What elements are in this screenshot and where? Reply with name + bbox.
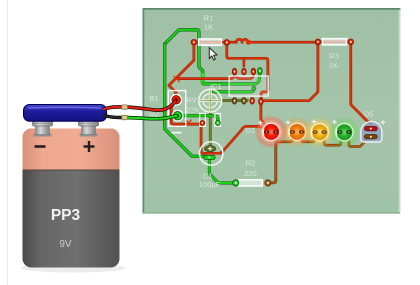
LED D2 body bbox=[288, 123, 305, 140]
wire red battery to board bbox=[103, 107, 123, 110]
trimmer RV1 legs bbox=[200, 113, 206, 126]
LED D3 body bbox=[311, 124, 328, 141]
svg-text:PP3: PP3 bbox=[51, 207, 81, 224]
node X junction marker upper bbox=[174, 76, 180, 82]
PCB board bbox=[143, 8, 401, 214]
wire red R1 left pad down to B1 plus pad bbox=[169, 44, 194, 99]
wire red IC pin5 down to D1 anode bbox=[261, 103, 267, 131]
page margin guide line bbox=[7, 0, 9, 285]
battery minus sign bbox=[35, 145, 46, 148]
svg-text:1K: 1K bbox=[329, 61, 338, 70]
wire brown link D1 right pad down to R2 right pad bbox=[268, 133, 276, 183]
battery shadow bbox=[21, 264, 125, 273]
wire green ground left vertical down to C1 minus pad bbox=[165, 44, 206, 156]
LED D1 pads bbox=[264, 130, 269, 134]
svg-text:220: 220 bbox=[244, 169, 257, 178]
svg-text:R2: R2 bbox=[246, 158, 256, 167]
board edge bottom bbox=[143, 212, 400, 214]
capacitor C1 minus pad green bbox=[204, 155, 215, 159]
capacitor C1 plus pad olive bbox=[205, 146, 216, 152]
resistor R2 pads bbox=[233, 180, 239, 186]
wire red rail R1-R3 at y=42 with jumper bumps bbox=[194, 41, 236, 44]
wire olive to IC pins 8-7 bbox=[221, 99, 248, 102]
battery plus sign bbox=[84, 141, 95, 152]
trimmer RV1 right pad green bbox=[216, 121, 221, 126]
wire red R3 right pad down to D5 top pad bbox=[351, 44, 371, 128]
capacitor C1 outline bbox=[200, 142, 223, 165]
LED D2 pads bbox=[290, 130, 295, 134]
board edge top bbox=[143, 8, 401, 10]
resistor R3 body bbox=[322, 39, 346, 45]
svg-text:C1: C1 bbox=[203, 171, 213, 180]
board edge left bbox=[142, 8, 144, 214]
LED D2 glow bbox=[282, 116, 313, 147]
svg-text:D5: D5 bbox=[364, 110, 374, 119]
node hop rings on green at red crossing bbox=[201, 73, 205, 77]
LED D4 body bbox=[336, 124, 353, 141]
svg-text:22K: 22K bbox=[186, 105, 200, 114]
LED D4 pads bbox=[337, 130, 342, 134]
battery connector B1 outline bbox=[168, 91, 185, 127]
wire brown zigzag D2 to D3 bbox=[302, 133, 315, 142]
polarity plus marks for LEDs bbox=[258, 121, 262, 125]
trimmer RV1 outline bbox=[199, 89, 222, 112]
svg-text:100µF: 100µF bbox=[199, 180, 221, 189]
wire green RV1 to IC second bar bbox=[214, 89, 254, 92]
wire black battery segment bbox=[103, 115, 123, 117]
LED D4 glow bbox=[329, 117, 360, 148]
wire green to board bbox=[128, 116, 178, 119]
wire brown zigzag D1 to D2 bbox=[276, 133, 293, 142]
trimmer RV1 left pad red bbox=[200, 121, 205, 126]
B1 negative pad bbox=[172, 110, 183, 121]
svg-text:IC1: IC1 bbox=[210, 82, 222, 91]
IC1 bottom pads 8-7 olive, 6-5 red bbox=[232, 98, 237, 105]
wire red IC bottom to R3 left pad bbox=[263, 44, 318, 101]
LED D5 bottom pad bbox=[364, 135, 377, 139]
svg-text:9V: 9V bbox=[59, 239, 72, 250]
mouse cursor bbox=[209, 48, 217, 60]
wire red B1 loop under C1 to D1 anode bbox=[171, 103, 266, 154]
svg-text:1K: 1K bbox=[204, 22, 213, 31]
wire RV1 wiper olive vertical to C1 bbox=[209, 104, 212, 146]
svg-text:D1: D1 bbox=[246, 126, 256, 135]
B1 positive pad bbox=[171, 94, 182, 105]
LED D1 glow bbox=[255, 115, 288, 148]
resistor R1 body bbox=[199, 39, 222, 45]
wire green ground loop top (to IC pin4) bbox=[165, 30, 203, 73]
IC1 top pads 1-3 red, 4 green bbox=[232, 68, 237, 75]
trimmer RV1 cross bbox=[199, 90, 221, 111]
wire brown zigzag D3 to D4 bbox=[324, 133, 341, 145]
IC1 DIP-8 outline bbox=[229, 76, 268, 96]
wire red R1 right pad over IC to pin5 bbox=[227, 44, 268, 100]
svg-text:R3: R3 bbox=[329, 51, 339, 60]
battery terminal left bbox=[34, 134, 52, 137]
wire red R3 body span bbox=[318, 41, 351, 44]
battery terminal right bbox=[80, 134, 98, 137]
wire junction sleeves bbox=[122, 105, 128, 109]
resistor R2 body bbox=[239, 180, 262, 186]
node X junction marker bbox=[186, 120, 191, 125]
svg-text:RV1: RV1 bbox=[186, 96, 201, 105]
silkscreen dash left of C1 bbox=[171, 132, 181, 134]
wire red inside IC pads 2-3 bbox=[234, 74, 253, 79]
LED D5 top pad bbox=[364, 126, 377, 131]
resistor R3 pads bbox=[315, 39, 321, 45]
resistor R1 pads bbox=[191, 39, 197, 45]
LED D5 body off bbox=[361, 121, 382, 142]
wire red short stub to IC pin2 bbox=[243, 58, 246, 66]
LED D1 body bbox=[263, 123, 280, 140]
battery top band salmon bbox=[23, 129, 120, 171]
svg-text:R1: R1 bbox=[204, 13, 214, 22]
wire green B1 negative pad to RV1 right leg pad bbox=[181, 116, 218, 123]
node ring on rail bbox=[247, 40, 251, 44]
svg-text:B1: B1 bbox=[149, 94, 158, 103]
LED D3 pads bbox=[312, 130, 317, 134]
board edge right bbox=[399, 10, 401, 214]
LED D3 glow bbox=[304, 117, 335, 148]
wire red branch to IC pin1 bbox=[178, 73, 235, 79]
wire green C1 minus to R2 left pad bbox=[209, 159, 233, 183]
battery body grey bbox=[23, 129, 120, 268]
wire brown zigzag D4 to D5 bottom pad bbox=[349, 133, 368, 146]
battery clip blue bbox=[24, 105, 107, 122]
